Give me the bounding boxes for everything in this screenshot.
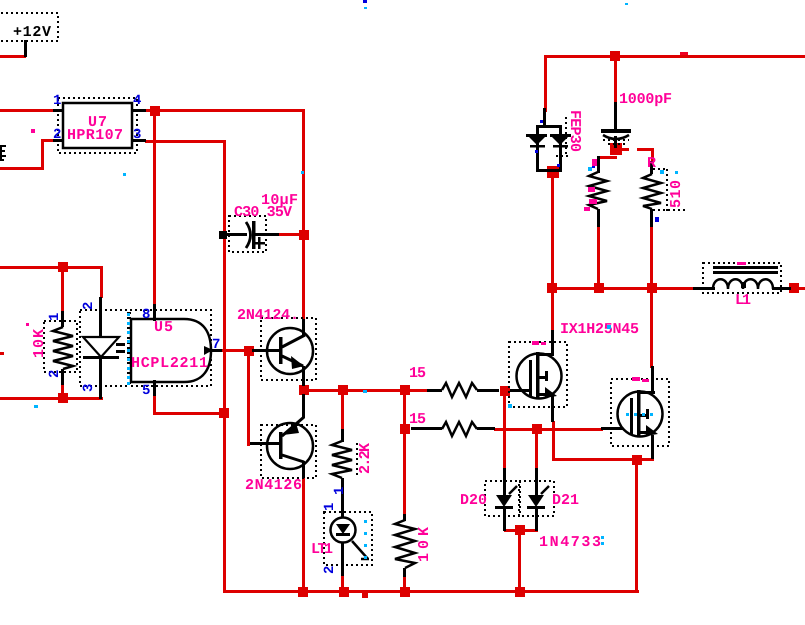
resistor 15 lower (411, 422, 495, 436)
node pin5 wire junction (219, 408, 229, 418)
node resistor 10K top junction (58, 262, 68, 272)
node emitter junction 2N4124/2N4126 (299, 385, 309, 395)
opto gate U5 body (131, 304, 222, 396)
label FEP30 (566, 110, 583, 152)
node bottom rail at LT1 (339, 587, 349, 597)
magenta stray dots (26, 129, 746, 326)
node MOSFET1 gate junction (500, 386, 510, 396)
svg-text:+12V: +12V (13, 24, 51, 41)
zener diode D21 (527, 468, 549, 531)
diode pair FEP30 (526, 108, 571, 172)
resistor 10K (opto input) (53, 311, 73, 385)
label 1000pF (619, 91, 672, 108)
pin numbers 10K opto (47, 313, 63, 378)
label 10K gate (416, 527, 433, 562)
wire mid rail down to MOSFET1 drain (551, 288, 554, 331)
svg-text:1N4733: 1N4733 (539, 534, 601, 551)
wire tick on top rail (680, 52, 688, 55)
label L1 (735, 292, 751, 309)
LED of optocoupler (83, 297, 125, 399)
wire mid rail horizontal (551, 287, 696, 290)
selection box U5 (130, 310, 211, 386)
selection box LT1 (324, 512, 372, 565)
transistor Q 2N4124 (252, 319, 313, 386)
node U7 pin4 junction (150, 106, 160, 116)
capacitor C30 (219, 221, 279, 249)
wire pin3 column down to bottom rail (223, 140, 226, 593)
svg-text:2N4124.: 2N4124. (237, 307, 299, 324)
node bottom rail at 10K (400, 587, 410, 597)
wire 1000pF junction right segment b (637, 148, 654, 151)
selection box 1000pF (603, 140, 629, 144)
label C30 35V (234, 204, 292, 221)
wire U5 pin7 to transistor bases (220, 349, 251, 352)
label IX1H25N45 (560, 321, 639, 338)
node mid rail at 510 resistor (647, 283, 657, 293)
svg-text:15: 15 (409, 365, 426, 382)
wire opto input bottom (0, 397, 103, 400)
cyan stray dots (34, 3, 628, 545)
label HCPL2211 (131, 355, 208, 372)
wire zener junction to bottom rail (518, 530, 521, 594)
wire 510 resistor bottom red (650, 226, 653, 289)
wire down to resistor 510 (651, 148, 654, 163)
wire 2.2K red top lead (341, 390, 344, 432)
selection box LED (80, 310, 128, 386)
svg-text:15: 15 (409, 411, 426, 428)
svg-text:2: 2 (81, 302, 97, 310)
node MOSFET2 gate wire junction (532, 424, 542, 434)
selection box MOSFET upper (509, 342, 567, 407)
label D21 (552, 492, 579, 509)
node base junction (244, 346, 254, 356)
svg-text:2: 2 (47, 370, 63, 378)
svg-text:1: 1 (53, 93, 61, 109)
selection box FEP30 (556, 117, 569, 157)
label 2N4126 (245, 477, 302, 494)
wire FEP30 bottom to mid rail (551, 172, 554, 289)
node source rail junction (632, 455, 642, 465)
wire U7 pin1 from left edge (0, 109, 55, 112)
wire column x405 down to 10K (403, 390, 406, 516)
wire MOSFET1 source red (552, 421, 555, 460)
svg-text:1: 1 (332, 487, 348, 495)
wire base junction down to 2N4126 base (247, 351, 250, 446)
selection box 2N4126 (261, 425, 316, 478)
label 2.2K (357, 443, 374, 474)
selection box 2.2K (356, 443, 358, 476)
svg-text:LT1: LT1 (311, 541, 333, 558)
label HPR107 (67, 127, 123, 144)
wire source junction to bottom rail corner (635, 460, 638, 593)
svg-text:7: 7 (212, 337, 220, 353)
selection box U7 (58, 98, 137, 153)
selection box 2N4124 (261, 318, 316, 380)
magenta fragments left resistor (584, 159, 597, 211)
wire zener bottom bar (504, 529, 538, 532)
cyan dots LT1 box (364, 520, 367, 559)
node bottom rail at 2N4126 (298, 587, 308, 597)
wire mid rail down to MOSFET2 drain (650, 288, 653, 368)
svg-text:1: 1 (322, 503, 338, 511)
svg-text:D20: D20 (460, 492, 487, 509)
wire LT1 bottom red (341, 575, 344, 593)
label 10K opto (31, 329, 48, 358)
wire MOSFET sources horizontal (552, 458, 654, 461)
wire top supply rail (545, 55, 805, 58)
wire left resistor bottom red (597, 226, 600, 289)
dc-dc converter U7 body (63, 103, 132, 148)
svg-text:R: R (647, 155, 656, 172)
label U7 (88, 114, 107, 131)
resistor 510 (643, 161, 661, 227)
MOSFET U IX1H25N45 upper (510, 330, 562, 422)
wire D21 column red (535, 429, 538, 470)
power label +12V box (0, 13, 58, 41)
svg-text:10K: 10K (416, 527, 433, 562)
pin number 2.2K (332, 487, 348, 495)
pin numbers LED (81, 302, 97, 392)
svg-text:1: 1 (47, 313, 63, 321)
wire 10K bottom red lead (61, 384, 64, 400)
wire 2N4126 collector red (302, 477, 305, 593)
selection box MOSFET lower (611, 379, 669, 446)
magenta fragment MOSFET lower (632, 377, 649, 382)
wire tick below bottom rail (362, 593, 368, 598)
svg-text:U5: U5 (154, 319, 173, 336)
label 10uF (261, 192, 298, 209)
zener diode D20 (495, 468, 517, 531)
wire left edge fragment red (0, 352, 4, 355)
junction top rail / 1000pF (610, 51, 620, 61)
selection box 10K (44, 321, 77, 372)
wire U7 pin4 across top (145, 109, 305, 112)
transistor Q 2N4126 (250, 394, 313, 478)
svg-text:2N4126: 2N4126 (245, 477, 302, 494)
wire U7 pin3 right (145, 140, 226, 143)
wire C30 right red (278, 233, 305, 236)
svg-text:4: 4 (133, 93, 141, 109)
wire pin4 junction down to U5 pin8 (153, 110, 156, 306)
wire U7 pin2 to left edge (0, 139, 55, 170)
resistor 10K (gate pulldown) (395, 514, 415, 577)
svg-text:HCPL2211: HCPL2211 (131, 355, 208, 372)
MOSFET lower (601, 366, 663, 459)
wire D20 column red (503, 391, 506, 470)
svg-text:C30 35V: C30 35V (234, 204, 292, 221)
wire bottom rail (223, 590, 639, 593)
wire +12V stub black (24, 40, 27, 57)
capacitor 1000pF (601, 102, 631, 148)
selection box D20 (485, 481, 520, 516)
node FEP30 bottom junction (547, 166, 559, 178)
wire mid rail right of L1 (788, 287, 805, 290)
svg-text:510: 510 (668, 180, 685, 208)
pin numbers LT1 (322, 503, 338, 574)
node zener bar junction (515, 525, 525, 535)
resistor left of pair (top leads) (589, 156, 607, 227)
label D20 (460, 492, 487, 509)
label U5 (154, 319, 173, 336)
wire 1000pF junction left to left resistor (598, 156, 617, 159)
label 15 upper (409, 365, 426, 382)
svg-text:3: 3 (81, 384, 97, 392)
node L1 right junction (789, 283, 799, 293)
svg-text:2: 2 (53, 127, 61, 143)
pin stubs U7 (53, 109, 146, 142)
label +12V (13, 24, 51, 41)
svg-text:2.2K: 2.2K (357, 443, 374, 474)
wire top rail down to FEP30 (544, 55, 547, 112)
node C30 right junction (299, 230, 309, 240)
svg-text:8: 8 (142, 307, 150, 323)
svg-text:IX1H25N45: IX1H25N45 (560, 321, 639, 338)
wire LED anode red (100, 266, 103, 298)
svg-text:D21: D21 (552, 492, 579, 509)
svg-text:FEP30: FEP30 (566, 110, 583, 152)
svg-text:3: 3 (133, 127, 141, 143)
selection box L1 (703, 263, 781, 293)
cyan dotted line U5 left (127, 313, 130, 385)
svg-text:1000pF: 1000pF (619, 91, 672, 108)
pin numbers U7 (53, 93, 141, 143)
pin numbers U5 (142, 307, 220, 399)
label 1N4733 (539, 534, 601, 551)
resistor 15 upper (427, 383, 499, 397)
wire 10K right bottom red (403, 576, 406, 593)
wire U5 pin5 to pin3 column (153, 395, 226, 415)
blue stray fragments (363, 0, 659, 222)
node mid rail at FEP column (547, 283, 557, 293)
svg-text:10K: 10K (31, 329, 48, 358)
inductor L1 (693, 266, 791, 290)
label 510 (668, 180, 685, 208)
wire 1000pF top lead red (614, 55, 617, 104)
wire 10K top red lead (61, 266, 64, 313)
wire C30 junction down to 2N4124 collector (302, 240, 305, 320)
label 15 lower (409, 411, 426, 428)
cyan dots resistor 510 (660, 170, 678, 174)
node bottom rail at zener column (515, 587, 525, 597)
wire emitter rail to gate resistors (304, 389, 429, 392)
wire second 15 resistor to MOSFET2 gate (494, 428, 603, 431)
node mid rail at left resistor (594, 283, 604, 293)
cyan dots MOSFET lower (626, 413, 653, 416)
wire 1000pF junction right segment a (616, 148, 629, 151)
node 2.2K top junction (338, 385, 348, 395)
svg-text:5: 5 (142, 383, 150, 399)
node second 15 resistor junction (400, 424, 410, 434)
node 10K/15 column junction (400, 385, 410, 395)
label LT1 (311, 541, 333, 558)
node resistor 10K bottom junction (58, 393, 68, 403)
LED LT1 (331, 518, 370, 577)
resistor 2.2K (332, 429, 352, 518)
svg-text:L1: L1 (735, 292, 751, 309)
svg-text:HPR107: HPR107 (67, 127, 123, 144)
selection box C30 (229, 216, 266, 252)
svg-text:2: 2 (322, 566, 338, 574)
node 1000pF bottom junction (610, 143, 622, 155)
selection box resistor 510 (653, 169, 686, 211)
label 2N4124 (237, 307, 299, 324)
connector fragment left edge (0, 145, 6, 161)
wire right branch down to C30 (302, 110, 305, 236)
magenta fragment MOSFET upper (532, 341, 546, 345)
magenta fragment R label (647, 155, 656, 172)
wire +12V feed (0, 55, 26, 58)
selection box D21 (519, 481, 554, 516)
wire opto input top (0, 266, 103, 269)
